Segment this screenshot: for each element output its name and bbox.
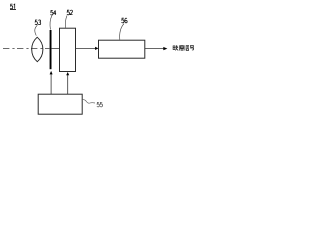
glyph 号 — [190, 45, 194, 50]
label 54 — [51, 10, 57, 15]
arrowhead of output — [163, 47, 167, 50]
glyph 映 — [173, 45, 178, 50]
glyph 信 — [185, 45, 189, 50]
arrow from box 55 to bar 54 — [50, 71, 53, 94]
leader line to box 52 — [65, 16, 67, 28]
shutter bar 54 — [50, 30, 52, 69]
label 55 — [97, 102, 103, 107]
leader line to bar 54 — [50, 16, 52, 30]
leader line to lens 53 — [35, 25, 37, 35]
box 55 — [38, 94, 82, 114]
glyph 像 — [179, 45, 183, 50]
box 56 — [99, 40, 145, 58]
arrowhead into box 56 — [95, 47, 98, 50]
lens 53 — [32, 37, 43, 62]
label 52 — [67, 10, 73, 15]
optical axis dash-dot line — [3, 47, 49, 49]
box 52 — [60, 28, 76, 71]
wire: box 56 output — [145, 48, 164, 50]
wire: box 52 output to box 56 — [76, 47, 96, 49]
wire: axis segment between element 54 and box 52 — [52, 47, 60, 49]
leader line to box 56 — [120, 24, 124, 40]
label 53 — [35, 20, 41, 25]
label 56 — [122, 18, 128, 23]
arrow from box 55 to box 52 — [66, 72, 69, 94]
tilde leader to box 55 — [82, 100, 95, 104]
label 51 — [10, 4, 16, 9]
text 映像信号 (video signal) drawn as vector strokes — [173, 45, 194, 50]
